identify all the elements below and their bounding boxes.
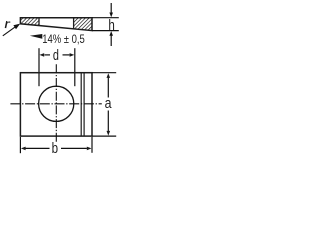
hole circle xyxy=(39,86,74,121)
svg-text:h: h xyxy=(108,17,114,34)
svg-text:b: b xyxy=(52,140,58,157)
a ext bottom xyxy=(92,135,116,137)
svg-text:d: d xyxy=(53,46,59,63)
h ext bottom xyxy=(92,30,119,32)
h ext top xyxy=(92,17,119,19)
slope symbol xyxy=(30,34,43,39)
h arrow top xyxy=(109,3,113,17)
a ext top xyxy=(92,72,116,74)
taper edge line 1 xyxy=(80,73,82,136)
r leader arrow xyxy=(3,24,20,36)
b dim line right + arrow xyxy=(61,147,92,151)
a dim line top + arrow xyxy=(107,73,111,97)
washer outline xyxy=(20,18,92,31)
d ext right xyxy=(74,48,76,86)
horizontal centerline xyxy=(10,103,101,105)
b ext left xyxy=(19,137,21,153)
d ext left xyxy=(38,48,40,86)
svg-text:a: a xyxy=(105,95,112,111)
a dim line bottom + arrow xyxy=(107,111,111,136)
svg-text:14% ± 0,5: 14% ± 0,5 xyxy=(42,33,85,46)
d dim line left + arrow xyxy=(40,53,51,57)
b ext right xyxy=(91,137,93,153)
hole edge left xyxy=(38,18,40,26)
d dim line right + arrow xyxy=(63,53,75,57)
b dim line left + arrow xyxy=(21,147,50,151)
hole edge right xyxy=(73,18,75,29)
hatch left wall xyxy=(20,18,39,26)
vertical centerline xyxy=(55,64,57,142)
h arrow bottom xyxy=(109,31,113,46)
taper edge line 2 xyxy=(83,73,85,136)
plan view square xyxy=(20,73,92,136)
hatch right wall xyxy=(74,18,92,31)
